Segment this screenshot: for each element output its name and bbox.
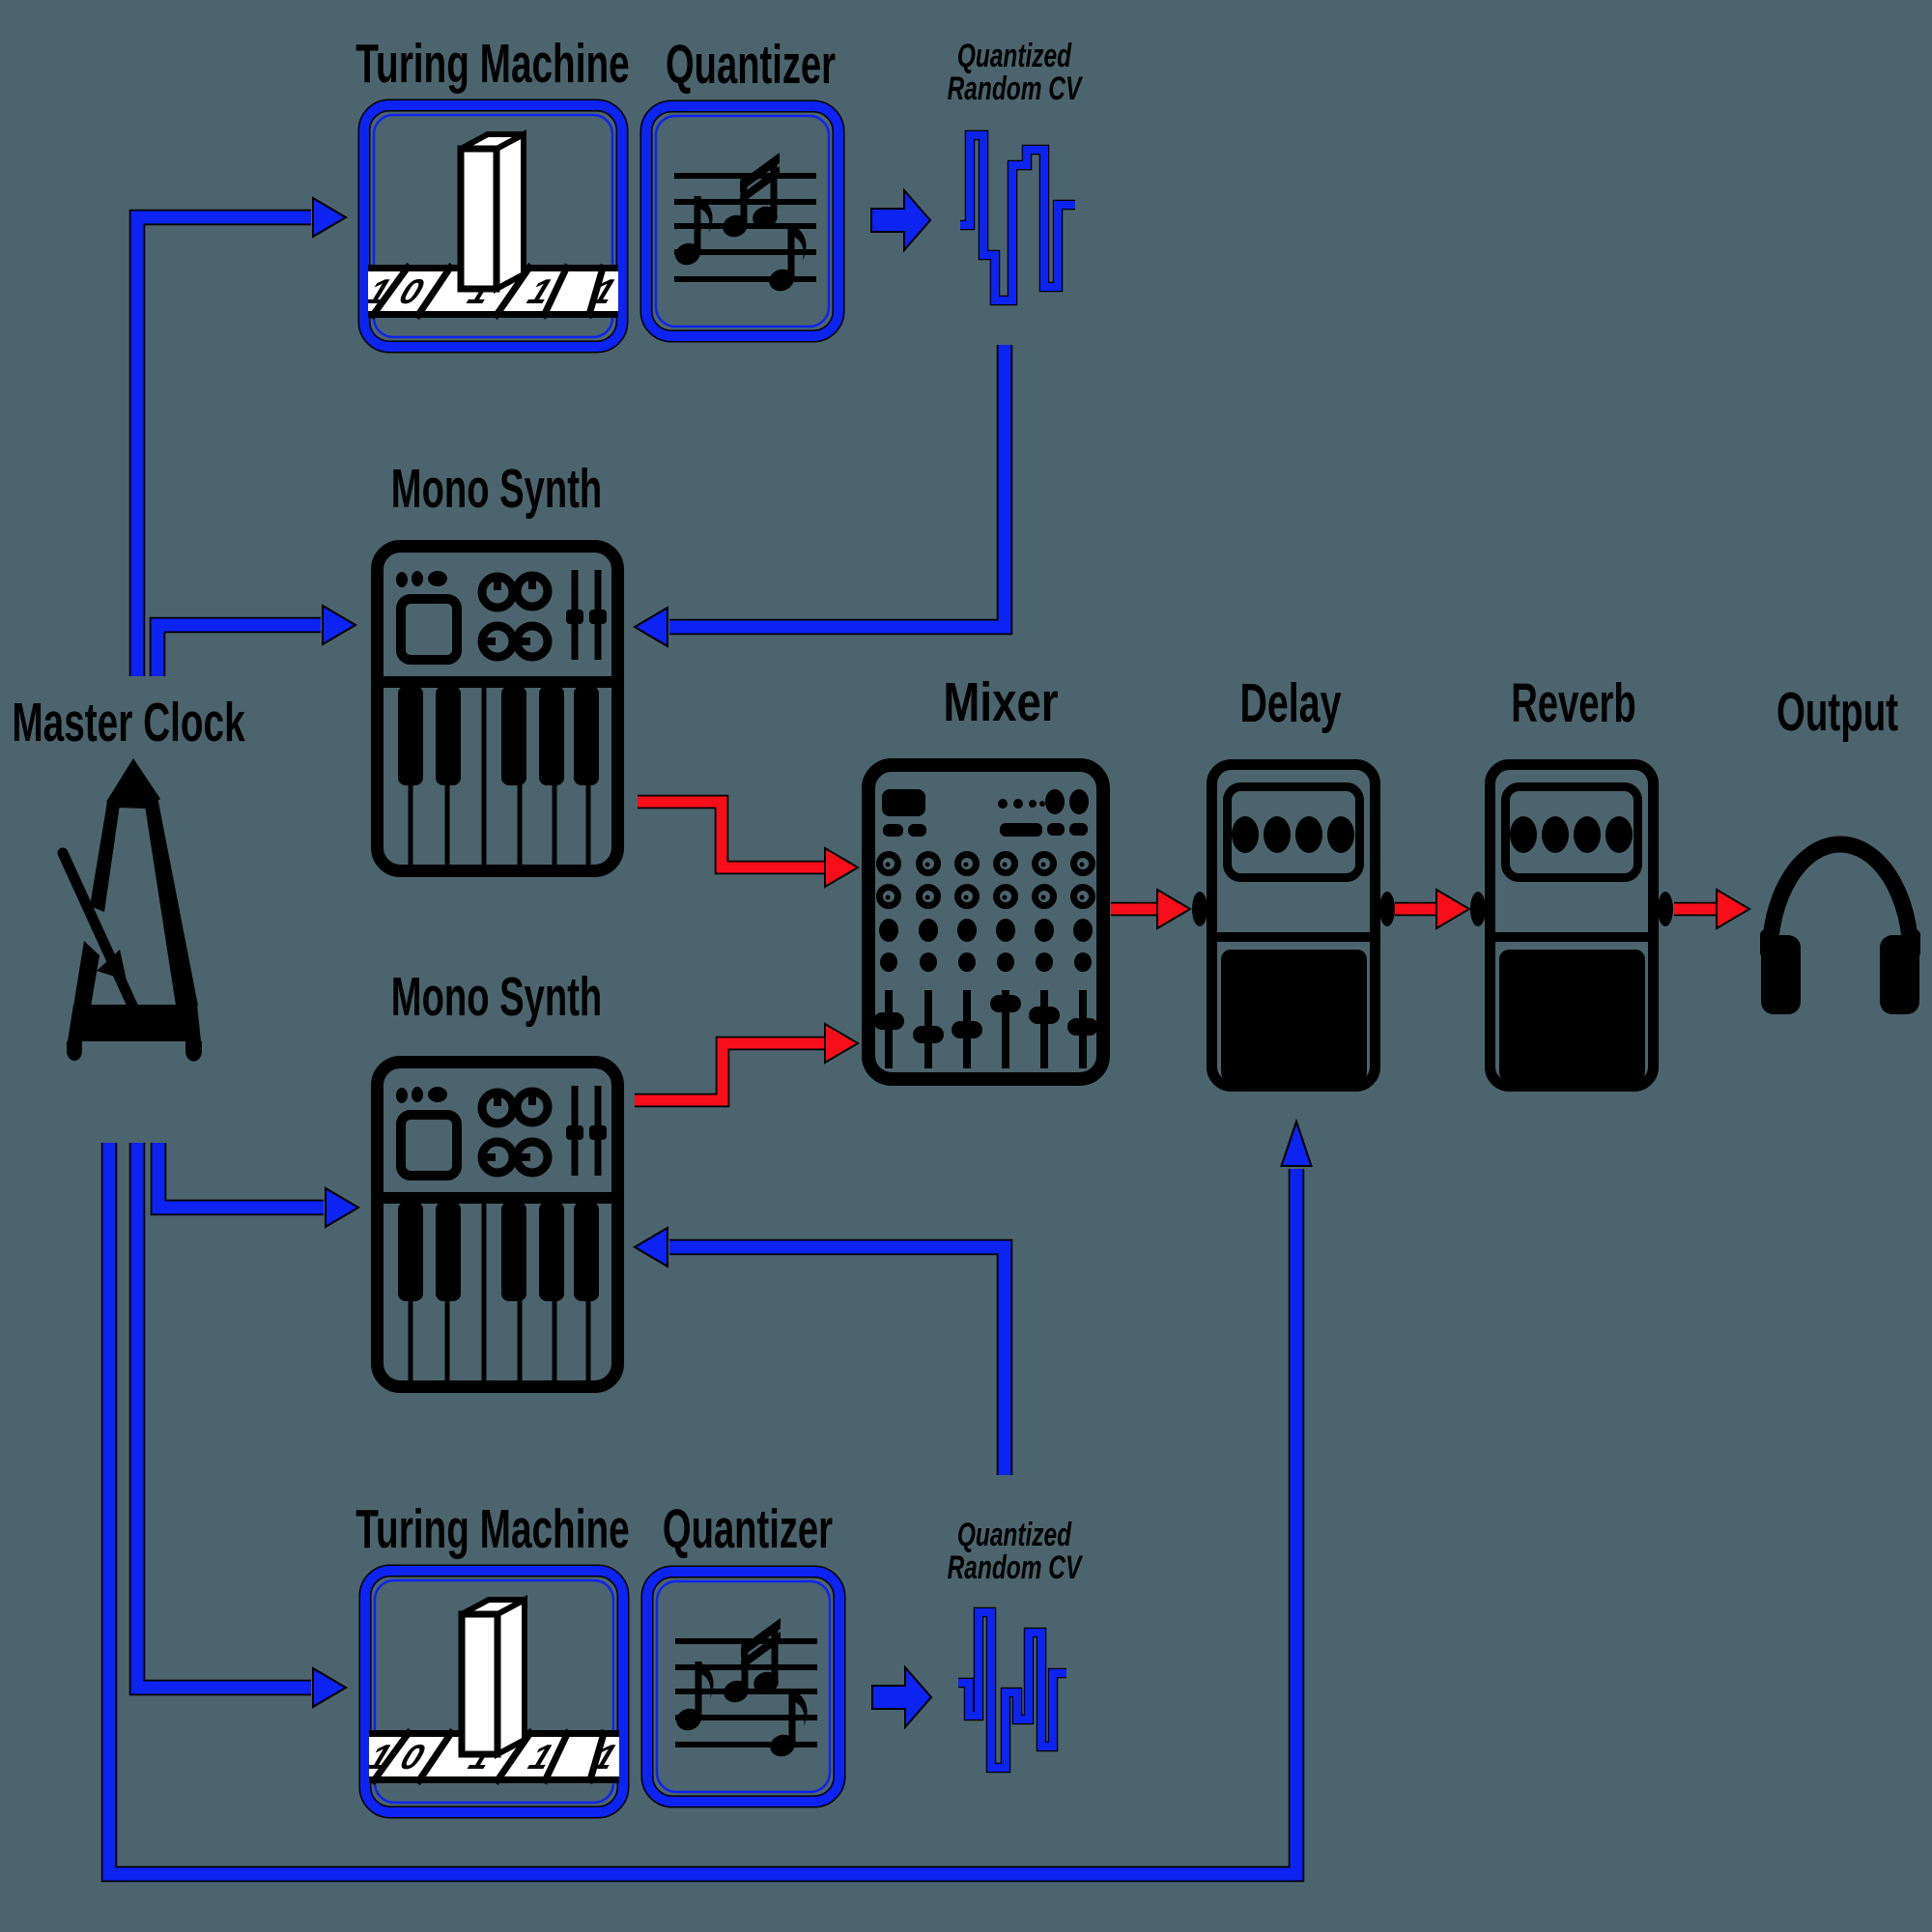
svg-text:Turing Machine: Turing Machine <box>355 34 629 95</box>
svg-text:Mono Synth: Mono Synth <box>391 966 602 1027</box>
svg-text:Quantized: Quantized <box>957 1517 1072 1553</box>
svg-text:Turing Machine: Turing Machine <box>355 1499 629 1560</box>
svg-text:Random CV: Random CV <box>948 71 1084 107</box>
svg-text:Output: Output <box>1776 682 1898 743</box>
svg-text:Quantizer: Quantizer <box>663 1498 833 1559</box>
svg-text:Reverb: Reverb <box>1511 672 1635 733</box>
svg-text:Mixer: Mixer <box>943 670 1058 732</box>
svg-text:Mono Synth: Mono Synth <box>391 458 602 519</box>
svg-text:Quantized: Quantized <box>957 38 1072 74</box>
svg-text:Random CV: Random CV <box>948 1549 1084 1586</box>
svg-text:Delay: Delay <box>1240 673 1342 734</box>
svg-text:Quantizer: Quantizer <box>666 34 836 95</box>
svg-text:Master Clock: Master Clock <box>12 693 245 753</box>
